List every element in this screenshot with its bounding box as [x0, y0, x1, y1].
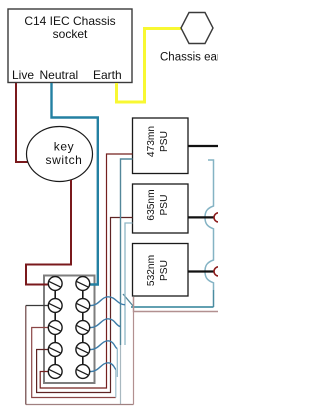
hump wire from c2R over to PSU2 pale drop	[90, 297, 125, 306]
laser diode circle at PSU3 output	[214, 267, 223, 276]
wire pink return from PSU3 bottom to right edge	[134, 297, 219, 312]
terminal circles right column	[76, 277, 90, 379]
chassis earth hexagon	[181, 13, 213, 44]
wire riser from loop397 up to c5R hump	[115, 370, 117, 398]
wire earth yellow from IEC to chassis earth hexagon	[117, 29, 182, 103]
svg-text:switch: switch	[46, 153, 83, 167]
hump wire from c5R to its drop	[90, 363, 116, 372]
PSU1 box 473mn	[133, 118, 189, 174]
wire live maroon from IEC to key switch	[16, 83, 28, 162]
wire pale PSU1 interlock drop	[121, 159, 133, 345]
laser diode circle at PSU2 output	[214, 213, 223, 222]
PSU3 output black wire	[188, 270, 214, 272]
svg-text:socket: socket	[53, 27, 88, 41]
key switch ellipse	[27, 127, 93, 182]
hump wire from c4R to its drop	[90, 341, 117, 350]
PSU2 box 635nm	[133, 184, 189, 233]
PSU2 output black wire	[188, 216, 214, 218]
wire pale PSU2 interlock drop	[125, 223, 133, 345]
wire maroon PSU1 live riser from loop to PSU1	[40, 154, 132, 388]
wire c4R drop fading below	[116, 349, 118, 378]
svg-text:C14 IEC Chassis: C14 IEC Chassis	[24, 14, 115, 28]
wire neutral blue from IEC down to terminal c1R	[52, 83, 98, 285]
svg-text:Earth: Earth	[93, 68, 122, 82]
wire maroon PSU2 dark riser from loop to PSU2	[37, 218, 133, 393]
terminal circles left column	[48, 277, 62, 379]
svg-text:Chassis eart: Chassis eart	[160, 52, 218, 64]
wire loop397 to c3L maroon	[32, 328, 116, 398]
wire c3R chain lower faint segment	[120, 345, 122, 405]
terminal column connectors right	[82, 290, 84, 364]
wire key switch output maroon to terminal c1L	[26, 180, 71, 285]
hump wire from c3R to its drop	[90, 319, 121, 328]
wire c2L black horizontal	[26, 305, 49, 307]
terminal block rectangle	[44, 276, 95, 384]
terminal column connectors left	[54, 290, 56, 364]
wire teal return horizontal to right edge	[131, 306, 214, 308]
PSU1 output black wire	[188, 145, 218, 147]
svg-text:Neutral: Neutral	[40, 68, 79, 82]
svg-text:key: key	[54, 140, 74, 154]
svg-text:Live: Live	[12, 68, 34, 82]
wire curve pale into teal return	[123, 294, 134, 307]
IEC socket box	[8, 9, 132, 83]
PSU3 box 532nm	[133, 244, 189, 297]
terminal screw slots	[49, 281, 89, 375]
wire loop404 pink bottom	[26, 404, 134, 406]
wire c2L left vertical	[25, 306, 27, 405]
wire pale return upper with hops	[205, 160, 214, 290]
wire teal return up right edge with hops over laser diodes	[213, 290, 215, 307]
